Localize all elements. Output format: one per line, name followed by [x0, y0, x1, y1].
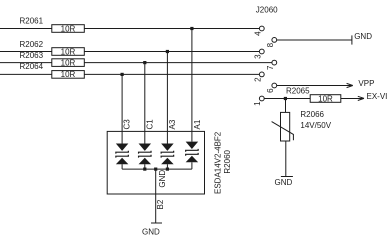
- junction on bus drop: [154, 168, 157, 171]
- svg-text:10R: 10R: [61, 58, 76, 67]
- svg-text:VPP: VPP: [358, 79, 374, 88]
- ground bar net GND: [352, 32, 372, 45]
- svg-text:A1: A1: [193, 119, 202, 129]
- svg-text:C1: C1: [145, 119, 154, 130]
- svg-text:10R: 10R: [61, 70, 76, 79]
- junction on wire W4: [121, 73, 124, 76]
- wire pin 8 to GND: [277, 39, 352, 41]
- wire W2 right to pin 3: [84, 51, 259, 53]
- wire vertical to diode column 2: [144, 63, 146, 144]
- resistor R2064 body 10R: [52, 70, 85, 79]
- svg-text:2: 2: [253, 77, 262, 82]
- svg-text:8: 8: [266, 42, 275, 47]
- resistor R2063 body 10R: [52, 58, 85, 67]
- pin 1: [253, 96, 264, 106]
- pin 4: [253, 26, 264, 36]
- svg-text:R2064: R2064: [20, 62, 44, 71]
- pin C1 label: [145, 119, 154, 130]
- svg-text:10R: 10R: [61, 24, 76, 33]
- svg-text:C3: C3: [123, 119, 132, 130]
- resistor R2065 body 10R: [310, 94, 341, 103]
- off-page arrow VPP: [347, 79, 375, 88]
- pin C3 label: [123, 119, 132, 130]
- wire vertical to diode column 3: [166, 52, 168, 144]
- svg-text:3: 3: [253, 54, 262, 59]
- junction at R2066 tap: [284, 97, 287, 100]
- ground under R2066: [275, 177, 293, 188]
- svg-text:GND: GND: [354, 32, 372, 41]
- ESD array part number label: [213, 131, 222, 194]
- wire W4 left: [0, 73, 52, 75]
- wire tap to varistor R2066: [285, 99, 287, 113]
- wire W3 right to pin 7: [84, 62, 272, 64]
- wire W1 left: [0, 28, 52, 30]
- svg-text:4: 4: [253, 31, 262, 36]
- pin GND name label: [158, 170, 167, 188]
- wire pin 1 to R2065: [264, 98, 310, 100]
- TVS diode pair 4: [186, 142, 199, 170]
- wire varistor to ground: [285, 141, 287, 177]
- TVS diode pair 3: [161, 144, 174, 170]
- svg-text:R2063: R2063: [20, 51, 44, 60]
- svg-text:R2065: R2065: [286, 86, 310, 95]
- resistor R2062 body 10R: [52, 47, 85, 56]
- wire internal bus: [122, 168, 192, 170]
- resistor R2065 label: [286, 86, 310, 95]
- connector J2060 label: [256, 5, 278, 14]
- pin A3 label: [168, 119, 177, 129]
- wire W4 right to pin 2: [84, 73, 259, 75]
- resistor R2063 label: [20, 51, 44, 60]
- pin 2: [253, 72, 264, 82]
- svg-text:ESDA14V2-4BF2: ESDA14V2-4BF2: [213, 131, 222, 194]
- TVS diode pair 1: [116, 144, 129, 170]
- svg-text:7: 7: [266, 65, 275, 70]
- wire W2 left: [0, 51, 52, 53]
- svg-text:10R: 10R: [318, 94, 333, 103]
- wire pin 6 to VPP: [277, 85, 353, 87]
- ground under ESD array: [142, 223, 162, 236]
- wire vertical to diode column 4: [191, 29, 193, 142]
- varistor R2066 body: [272, 112, 294, 141]
- resistor R2064 label: [20, 62, 44, 71]
- ESD array U body R2060: [107, 131, 204, 194]
- junction on bus col3: [166, 168, 169, 171]
- svg-text:A3: A3: [168, 119, 177, 129]
- svg-text:GND: GND: [158, 170, 167, 188]
- wire B2 drop: [155, 169, 157, 223]
- svg-text:R2061: R2061: [20, 17, 44, 26]
- pin B2 label: [156, 199, 165, 209]
- resistor R2061 body 10R: [52, 24, 85, 33]
- svg-text:GND: GND: [142, 227, 160, 236]
- svg-text:GND: GND: [275, 178, 293, 187]
- pin 3: [253, 49, 264, 59]
- pin 7: [266, 60, 277, 70]
- pin 6: [266, 83, 277, 93]
- svg-text:14V/50V: 14V/50V: [300, 121, 331, 130]
- junction on wire W2: [166, 50, 169, 53]
- off-page arrow EX-VID: [358, 92, 387, 101]
- svg-text:EX-VID: EX-VID: [367, 92, 387, 101]
- resistor R2061 label: [20, 17, 44, 26]
- ESD array refdes R2060: [223, 149, 232, 173]
- svg-text:10R: 10R: [61, 47, 76, 56]
- junction on bus col2: [143, 168, 146, 171]
- wire vertical to diode column 1: [121, 74, 123, 143]
- svg-text:R2062: R2062: [20, 40, 44, 49]
- svg-text:R2066: R2066: [300, 110, 324, 119]
- svg-text:R2060: R2060: [223, 149, 232, 173]
- varistor R2066 label: [300, 110, 324, 119]
- svg-text:1: 1: [253, 101, 262, 106]
- pin 8: [266, 38, 277, 48]
- pin A1 label: [193, 119, 202, 129]
- junction on wire W1: [190, 27, 193, 30]
- TVS diode pair 2: [139, 144, 152, 170]
- wire R2065 to EX-VID: [341, 98, 364, 100]
- svg-text:6: 6: [266, 88, 275, 93]
- junction on wire W3: [143, 61, 146, 64]
- wire W3 left: [0, 62, 52, 64]
- wire W1 right to pin 4: [84, 28, 259, 30]
- varistor value 14V/50V: [300, 121, 331, 130]
- resistor R2062 label: [20, 40, 44, 49]
- svg-text:B2: B2: [156, 199, 165, 209]
- svg-text:J2060: J2060: [256, 5, 278, 14]
